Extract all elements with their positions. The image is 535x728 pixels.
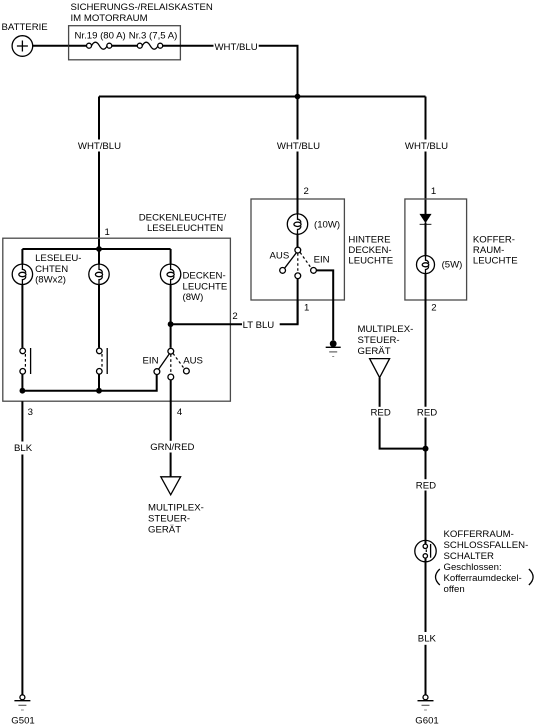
ground rear dome [326,340,341,356]
fuse box [69,26,181,60]
reading lamp 1 [12,264,32,284]
parenthesis left [436,569,440,585]
svg-text:MULTIPLEX-: MULTIPLEX- [148,503,204,514]
junction bus2 sw1 [20,388,26,394]
dome/reading lights unit box [3,238,231,401]
svg-text:Nr.19 (80 A): Nr.19 (80 A) [75,31,126,42]
wire to pin 2 [171,323,242,325]
EIN/AUS switch dome [154,348,189,380]
reading lamp 1 leads [21,249,23,264]
multiplex control unit connector left [161,477,181,495]
svg-text:BLK: BLK [14,443,33,454]
svg-text:1: 1 [105,227,110,238]
svg-text:RED: RED [417,407,437,418]
wire BLK to ground G601 [425,645,427,695]
wire trunk RED down [425,418,427,480]
svg-text:WHT/BLU: WHT/BLU [405,141,448,152]
svg-text:LEUCHTE: LEUCHTE [183,281,228,292]
rear dome switch [280,247,317,278]
svg-text:DECKENLEUCHTE/: DECKENLEUCHTE/ [139,212,227,223]
wire switch2 to bus [98,374,100,391]
wire WHT/BLU to corner [259,46,298,97]
wire multiplex RED to junction [380,418,426,449]
ground G501 [14,695,30,710]
wire pin 4 [170,380,172,441]
svg-text:LESELEU-: LESELEU- [35,253,81,264]
svg-text:GRN/RED: GRN/RED [150,442,194,453]
svg-text:AUS: AUS [270,251,290,262]
svg-text:(8Wx2): (8Wx2) [35,275,66,286]
wire left to box pin 1 [98,152,100,250]
svg-text:offen: offen [444,584,465,595]
wire middle to box pin 2 [297,152,299,215]
trunk light box [405,199,467,300]
svg-text:WHT/BLU: WHT/BLU [78,141,121,152]
ground G601 [418,695,434,710]
wire EIN contact to ground [316,270,333,340]
fuse Nr.19 (80 A) [69,42,112,49]
svg-text:SCHALTER: SCHALTER [444,551,495,562]
svg-text:EIN: EIN [143,356,159,367]
wire battery to fuse box [33,45,69,47]
diode D1 [420,214,432,224]
wire GRN/RED to multiplex [170,453,172,477]
svg-text:HINTERE: HINTERE [348,234,390,245]
fuse Nr.3 (7,5 A) [137,42,180,49]
multiplex control unit connector middle [370,359,390,378]
wire drop middle [297,97,299,140]
junction main [295,94,301,100]
svg-text:KOFFERRAUM-: KOFFERRAUM- [444,529,514,540]
wire rear dome pin 1 [297,279,299,325]
svg-text:2: 2 [431,303,436,314]
svg-text:1: 1 [431,186,436,197]
svg-text:RED: RED [371,407,391,418]
wire drop left [98,97,100,140]
internal bus bottom [22,375,156,391]
wire LT BLU to middle box pin 1 [280,300,298,324]
svg-text:WHT/BLU: WHT/BLU [215,42,258,53]
svg-text:RAUM-: RAUM- [473,245,504,256]
svg-text:(5W): (5W) [442,259,463,270]
dome lamp leads [170,249,172,264]
svg-text:(10W): (10W) [314,219,340,230]
junction RED [423,446,429,452]
svg-text:KOFFER-: KOFFER- [473,234,515,245]
svg-text:1: 1 [304,303,309,314]
wire between fuses [112,45,138,47]
svg-text:AUS: AUS [183,356,203,367]
trunk lamp (5W) [417,256,435,274]
svg-text:Nr.3 (7,5 A): Nr.3 (7,5 A) [129,31,178,42]
svg-text:DECKEN-: DECKEN- [183,270,226,281]
svg-text:WHT/BLU: WHT/BLU [277,141,320,152]
wire BLK to ground [21,455,23,695]
rear dome light box [251,199,344,300]
junction bus pin1 [96,246,102,252]
battery B1 [12,36,33,57]
svg-text:4: 4 [177,407,183,418]
svg-text:RED: RED [416,481,436,492]
wire drop right [425,97,427,140]
svg-text:STEUER-: STEUER- [358,335,400,346]
svg-text:2: 2 [232,311,237,322]
wire right to box pin 1 [425,152,427,215]
svg-text:LEUCHTE: LEUCHTE [473,256,518,267]
svg-text:BLK: BLK [418,633,437,644]
svg-text:G501: G501 [11,715,34,726]
wire trunk lamp pin 2 [425,274,427,407]
svg-text:DECKEN-: DECKEN- [348,245,391,256]
parenthesis right [529,569,533,585]
reading lamp 2 [89,264,109,284]
wire fuse box to WHT/BLU [180,45,213,47]
door switch 2 [97,348,108,374]
svg-text:GERÄT: GERÄT [148,525,181,536]
wire diode to lamp [425,223,427,256]
door switch 1 [20,348,31,374]
svg-text:SCHLOSSFALLEN-: SCHLOSSFALLEN- [444,540,529,551]
svg-text:BATTERIE: BATTERIE [2,22,48,33]
dome lamp [160,264,180,284]
svg-text:LT BLU: LT BLU [243,320,275,331]
svg-text:G601: G601 [415,715,438,726]
junction node LT BLU branch [168,321,174,327]
trunk latch switch [415,540,436,561]
svg-text:Kofferraumdeckel-: Kofferraumdeckel- [444,573,522,584]
wire switch1 to bus [21,374,23,391]
svg-text:IM MOTORRAUM: IM MOTORRAUM [71,13,148,24]
svg-text:2: 2 [304,186,309,197]
wire multiplex to RED [379,378,381,407]
svg-text:LESELEUCHTEN: LESELEUCHTEN [147,223,223,234]
svg-text:LEUCHTE: LEUCHTE [348,256,393,267]
svg-text:CHTEN: CHTEN [35,264,68,275]
svg-text:(8W): (8W) [183,292,204,303]
reading lamp 2 leads [98,249,100,264]
svg-text:STEUER-: STEUER- [148,514,190,525]
main distribution wire [99,96,426,98]
svg-text:Geschlossen:: Geschlossen: [444,562,502,573]
svg-text:SICHERUNGS-/RELAISKASTEN: SICHERUNGS-/RELAISKASTEN [71,2,213,13]
svg-text:3: 3 [28,407,33,418]
svg-text:MULTIPLEX-: MULTIPLEX- [358,324,414,335]
svg-text:EIN: EIN [314,254,330,265]
svg-text:GERÄT: GERÄT [358,346,391,357]
junction bus2 sw2 [96,388,102,394]
wire trunk switch to BLK [425,558,427,632]
wire RED to trunk switch [425,491,427,545]
wire pin 3 down [21,401,23,441]
internal bus top [22,248,170,250]
rear dome lamp (10W) [287,214,307,234]
rear dome lamp leads [297,152,299,215]
